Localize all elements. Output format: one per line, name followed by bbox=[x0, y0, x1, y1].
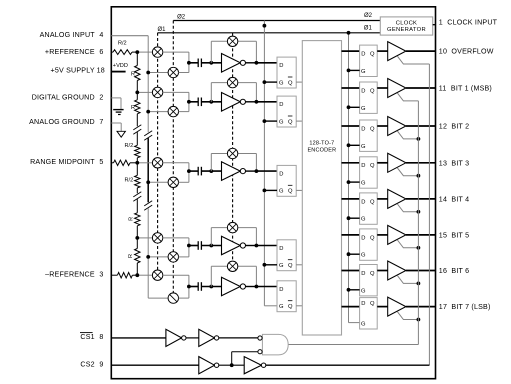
svg-text:D: D bbox=[361, 301, 365, 307]
svg-text:G: G bbox=[361, 144, 366, 150]
node D input row 1 bbox=[255, 61, 259, 65]
resistor R ladder 2 bbox=[131, 100, 140, 114]
wire U4 output to overflow enable rail bbox=[266, 364, 430, 366]
ladder break 1 bbox=[133, 125, 141, 130]
svg-text:Q: Q bbox=[370, 199, 375, 205]
latch bit 1 (second stage) bbox=[360, 82, 378, 113]
resistor (range midpoint) bbox=[114, 160, 131, 165]
node merge row 1 bbox=[187, 61, 191, 65]
svg-text:D: D bbox=[361, 163, 365, 169]
output enable rail (bits) bbox=[417, 101, 419, 345]
pin 9 label CS2 bbox=[80, 361, 103, 369]
NAND input bubble 2 bbox=[258, 350, 262, 354]
svg-text:Q: Q bbox=[288, 304, 293, 310]
svg-text:Q: Q bbox=[288, 263, 293, 269]
wire merge to capacitor row 2 bbox=[189, 101, 198, 103]
wire latch Q to buffer bit 5 bbox=[377, 234, 388, 236]
output buffer bit 4 bbox=[388, 189, 406, 208]
wire latch clock row 1 bbox=[264, 81, 277, 83]
wire U2 to NAND input 1 bbox=[219, 337, 258, 339]
svg-text:R/2: R/2 bbox=[124, 177, 133, 183]
wire buffer output overflow to pin bbox=[406, 50, 436, 52]
latch bit 5 (second stage) bbox=[360, 229, 378, 260]
analog switch row 5 input (Ø2) bbox=[168, 293, 178, 303]
svg-text:RANGE MIDPOINT: RANGE MIDPOINT bbox=[30, 158, 95, 166]
enable stub bit 2 bbox=[397, 131, 418, 139]
svg-text:Q: Q bbox=[370, 163, 375, 169]
wire rail to input switch row 3 bbox=[148, 181, 168, 183]
svg-text:1 CLOCK INPUT: 1 CLOCK INPUT bbox=[439, 19, 498, 27]
svg-text:Q: Q bbox=[288, 189, 293, 195]
wire buffer output bit 1 to pin bbox=[406, 87, 436, 89]
wire buffer output bit 2 to pin bbox=[406, 125, 436, 127]
svg-text:ANALOG GROUND: ANALOG GROUND bbox=[29, 118, 95, 126]
dashed control line Ø2 (input switches) bbox=[172, 21, 174, 304]
pin 2 label DIGITAL GROUND bbox=[32, 93, 104, 101]
svg-text:Ø1: Ø1 bbox=[364, 25, 373, 31]
enable stub overflow bbox=[397, 56, 429, 64]
svg-text:128-TO-7: 128-TO-7 bbox=[309, 140, 334, 146]
wire buffer output bit 6 to pin bbox=[406, 270, 436, 272]
svg-text:G: G bbox=[361, 321, 366, 327]
node capacitor output row 3 bbox=[209, 169, 213, 173]
node analog rail taps bbox=[146, 71, 150, 259]
svg-text:D: D bbox=[279, 172, 283, 178]
node enable bit 7 bbox=[417, 318, 421, 322]
wire encoder output bit 6 bbox=[342, 270, 360, 272]
svg-text:G: G bbox=[361, 217, 366, 223]
svg-text:14 BIT 4: 14 BIT 4 bbox=[439, 195, 469, 203]
svg-text:Q: Q bbox=[288, 119, 293, 125]
wire latch Q to buffer bit 4 bbox=[377, 198, 388, 200]
svg-text:–REFERENCE: –REFERENCE bbox=[45, 270, 95, 278]
wire input switch to merge node row 1 bbox=[179, 63, 189, 73]
node enable bit 5 bbox=[417, 246, 421, 250]
wire R/2 to ladder node bbox=[132, 51, 137, 53]
node enable bit 3 bbox=[417, 174, 421, 178]
wire latch clock bit 4 bbox=[349, 217, 360, 219]
svg-text:10 OVERFLOW: 10 OVERFLOW bbox=[439, 48, 494, 56]
128-to-7 encoder block bbox=[302, 41, 341, 335]
svg-text:2: 2 bbox=[99, 93, 103, 101]
svg-text:G: G bbox=[279, 263, 284, 269]
node D input row 2 bbox=[255, 100, 259, 104]
latch bit 2 (second stage) bbox=[360, 120, 378, 151]
comparator row 1: ladder tap wire bbox=[137, 51, 152, 53]
comparator row 5: ladder tap wire bbox=[137, 274, 152, 276]
resistor R ladder 5 bbox=[128, 213, 140, 226]
resistor R ladder 6 bbox=[128, 249, 140, 264]
wire latch Q to encoder row 3 bbox=[296, 189, 302, 191]
ladder wire R/2-node3 bbox=[136, 158, 138, 163]
wire ladder switch to merge node row 4 bbox=[163, 238, 189, 246]
analog switch row 3 feedback (Ø1) bbox=[227, 148, 237, 158]
svg-text:9: 9 bbox=[99, 361, 103, 369]
svg-text:+REFERENCE: +REFERENCE bbox=[45, 48, 95, 56]
svg-text:G: G bbox=[279, 80, 284, 86]
enable stub bit 3 bbox=[397, 168, 418, 176]
wire pin 1 clock input bbox=[433, 24, 436, 26]
ladder break 2 bbox=[133, 192, 141, 197]
svg-text:Q: Q bbox=[288, 80, 293, 86]
comparator row 3: ladder tap wire bbox=[137, 162, 152, 164]
feedback loop wires row 1 bbox=[211, 41, 256, 63]
wire latch Q to buffer bit 2 bbox=[377, 125, 388, 127]
ladder wire R6-node5 bbox=[136, 263, 138, 275]
svg-text:+VDD: +VDD bbox=[113, 63, 128, 69]
ladder wire R1-node2 bbox=[136, 81, 138, 100]
svg-text:R: R bbox=[131, 72, 135, 78]
svg-text:7: 7 bbox=[99, 118, 103, 126]
node enable bit 6 bbox=[417, 282, 421, 286]
wire rail to input switch row 2 bbox=[148, 111, 168, 113]
svg-text:CS2: CS2 bbox=[80, 361, 94, 369]
rail break 1 bbox=[144, 131, 152, 136]
wire latch Q to encoder row 5 bbox=[296, 305, 302, 307]
svg-text:Ø2: Ø2 bbox=[177, 15, 186, 21]
wire clock rail turn to latch 5 bbox=[264, 305, 277, 307]
wire encoder output bit 2 bbox=[342, 125, 360, 127]
analog switch row 4 input (Ø2) bbox=[168, 252, 178, 262]
svg-text:D: D bbox=[361, 235, 365, 241]
wire latch clock overflow bbox=[349, 69, 360, 71]
ladder wire node4-R6 bbox=[136, 238, 138, 249]
feedback loop wires row 2 bbox=[211, 83, 256, 102]
wire encoder output bit 4 bbox=[342, 198, 360, 200]
wire buffer output bit 5 to pin bbox=[406, 234, 436, 236]
wire ladder switch to merge node row 5 bbox=[163, 275, 189, 286]
wire pin 2 digital ground bbox=[111, 97, 121, 99]
feedback loop wires row 5 bbox=[211, 266, 256, 286]
wire pin 6 +reference bbox=[111, 51, 113, 53]
wire latch clock row 2 bbox=[264, 120, 277, 122]
wire latch clock bit 1 bbox=[349, 106, 360, 108]
wire ladder switch to merge node row 1 bbox=[163, 52, 189, 63]
feedback loop wires row 3 bbox=[211, 154, 256, 172]
enable stub bit 1 bbox=[397, 93, 418, 101]
wire latch clock bit 5 bbox=[349, 253, 360, 255]
digital ground symbol bbox=[113, 98, 123, 115]
enable stub bit 5 bbox=[397, 240, 418, 248]
latch L1 (first stage) bbox=[277, 57, 296, 88]
ladder wire R5-node4 bbox=[136, 226, 138, 238]
ladder wire break2-R5 bbox=[136, 199, 138, 213]
wire latch Q to encoder row 1 bbox=[296, 81, 302, 83]
node D input row 5 bbox=[255, 285, 259, 289]
dashed control line Ø1 (feedback switches) bbox=[232, 33, 234, 272]
wire ladder switch to merge node row 3 bbox=[163, 163, 189, 171]
svg-text:Q: Q bbox=[370, 52, 375, 58]
svg-text:R: R bbox=[128, 254, 134, 258]
analog switch row 5 feedback (Ø1) bbox=[227, 261, 237, 271]
latch bit 7 (second stage) bbox=[360, 298, 378, 329]
output buffer bit 5 bbox=[388, 225, 406, 244]
enable stub bit 4 bbox=[397, 204, 418, 212]
capacitor C5 bbox=[198, 282, 201, 291]
ladder wire break1-R/2 bbox=[136, 132, 138, 145]
latch bit 3 (second stage) bbox=[360, 157, 378, 188]
svg-text:R: R bbox=[131, 105, 135, 111]
analog switch row 2 feedback (Ø1) bbox=[227, 77, 237, 87]
output buffer bit 1 bbox=[388, 79, 406, 98]
ladder wire node3-R/2b bbox=[136, 163, 138, 176]
svg-text:G: G bbox=[361, 288, 366, 294]
resistor R/2 ladder 4 bbox=[124, 175, 140, 188]
node capacitor output row 1 bbox=[209, 61, 213, 65]
pin 3 label –REFERENCE bbox=[45, 270, 103, 278]
wire amplifier output row 2 bbox=[246, 101, 257, 103]
wire amplifier output row 5 bbox=[246, 286, 257, 288]
wire rail to input switch row 4 bbox=[148, 256, 168, 258]
node merge row 4 bbox=[187, 244, 191, 248]
node merge row 3 bbox=[187, 169, 191, 173]
inverter U3 (CS2) bbox=[199, 357, 219, 374]
node D input row 4 bbox=[255, 244, 259, 248]
wire capacitor to amplifier row 5 bbox=[201, 286, 221, 288]
device outline box bbox=[111, 7, 435, 379]
wire buffer output bit 4 to pin bbox=[406, 198, 436, 200]
node enable bit 4 bbox=[417, 210, 421, 214]
svg-text:3: 3 bbox=[99, 270, 103, 278]
wire input switch to merge node row 4 bbox=[179, 246, 189, 257]
svg-text:8: 8 bbox=[99, 333, 103, 341]
capacitor C2 bbox=[198, 98, 201, 107]
wire pin 18 +VDD stub bbox=[111, 63, 128, 71]
svg-text:Ø1: Ø1 bbox=[157, 27, 166, 33]
wire merge to capacitor row 1 bbox=[189, 62, 198, 64]
wire pin 3 -reference bbox=[111, 274, 117, 276]
svg-text:CS1: CS1 bbox=[80, 333, 94, 341]
resistor (-reference) bbox=[117, 273, 132, 278]
output buffer bit 7 bbox=[388, 297, 406, 316]
svg-text:R: R bbox=[128, 217, 134, 221]
wire D input row 3 bbox=[256, 170, 277, 172]
svg-text:D: D bbox=[279, 63, 283, 69]
wire amplifier output row 4 bbox=[246, 245, 257, 247]
svg-text:DIGITAL GROUND: DIGITAL GROUND bbox=[32, 93, 95, 101]
svg-text:Ø2: Ø2 bbox=[364, 13, 373, 19]
analog input rail segment 3 bbox=[147, 208, 149, 298]
svg-text:G: G bbox=[279, 119, 284, 125]
comparator amplifier A5 bbox=[222, 277, 246, 296]
svg-text:16 BIT 6: 16 BIT 6 bbox=[439, 267, 469, 275]
analog input rail segment 2 bbox=[147, 138, 149, 202]
wire rail to input switch row 1 bbox=[148, 72, 168, 74]
analog switch row 1 ladder (Ø1) bbox=[152, 47, 162, 57]
phase rail Ø1 bbox=[157, 25, 380, 33]
wire latch clock bit 6 bbox=[349, 289, 360, 291]
latch L5 (first stage) bbox=[277, 281, 296, 312]
analog switch row 1 feedback (Ø1) bbox=[227, 36, 237, 46]
svg-text:G: G bbox=[279, 189, 284, 195]
svg-text:D: D bbox=[361, 271, 365, 277]
pin 4 label ANALOG INPUT bbox=[40, 31, 104, 39]
svg-text:18: 18 bbox=[97, 67, 105, 75]
analog switch row 4 ladder (Ø1) bbox=[152, 233, 162, 243]
svg-text:Q: Q bbox=[370, 301, 375, 307]
capacitor C4 bbox=[198, 241, 201, 250]
latch L4 (first stage) bbox=[277, 240, 296, 271]
comparator amplifier A1 bbox=[222, 54, 246, 73]
svg-text:GENERATOR: GENERATOR bbox=[387, 27, 426, 33]
svg-text:Q: Q bbox=[370, 235, 375, 241]
wire input switch to merge node row 2 bbox=[179, 102, 189, 112]
analog switch row 1 input (Ø2) bbox=[168, 67, 178, 77]
ladder wire to break 2 bbox=[136, 188, 138, 193]
output buffer bit 3 bbox=[388, 153, 406, 172]
wire encoder output bit 1 bbox=[342, 87, 360, 89]
CS1 overline bbox=[80, 332, 93, 334]
node CS2 branch bbox=[230, 363, 234, 367]
wire CS2 branch to NAND input 2 bbox=[232, 352, 258, 366]
node ladder taps bbox=[135, 50, 139, 277]
ladder wire node1-R1 bbox=[136, 52, 138, 65]
wire resistor to ladder node bbox=[130, 162, 137, 164]
wire pin 8 CS1 bbox=[111, 337, 166, 339]
analog switch row 5 ladder (Ø1) bbox=[152, 270, 162, 280]
latch overflow (second stage) bbox=[360, 45, 378, 76]
wire amplifier output row 1 bbox=[246, 62, 257, 64]
resistor R/2 (+reference) bbox=[113, 41, 132, 55]
svg-text:4: 4 bbox=[99, 31, 103, 39]
svg-text:R/2: R/2 bbox=[124, 143, 133, 149]
output buffer overflow bbox=[388, 42, 406, 61]
wire capacitor to amplifier row 4 bbox=[201, 245, 221, 247]
wire U1 to U2 bbox=[186, 337, 199, 339]
analog switch row 4 feedback (Ø1) bbox=[227, 222, 237, 232]
inverter U2 (CS1) bbox=[199, 329, 219, 346]
wire buffer output bit 3 to pin bbox=[406, 162, 436, 164]
wire pin 7 analog ground bbox=[111, 122, 121, 124]
latch bit 6 (second stage) bbox=[360, 265, 378, 296]
feedback loop wires row 4 bbox=[211, 228, 256, 246]
comparator amplifier A3 bbox=[222, 162, 246, 181]
latch bit 4 (second stage) bbox=[360, 193, 378, 224]
svg-text:D: D bbox=[279, 246, 283, 252]
resistor R ladder 1 bbox=[131, 66, 140, 81]
node capacitor output row 5 bbox=[209, 285, 213, 289]
wire latch Q to encoder row 2 bbox=[296, 120, 302, 122]
analog switch row 3 ladder (Ø1) bbox=[152, 158, 162, 168]
pin 18 label +5V SUPPLY bbox=[51, 67, 105, 75]
wire latch Q to buffer bit 7 bbox=[377, 306, 388, 308]
latch clock rail (first stage) bbox=[263, 21, 265, 306]
svg-text:G: G bbox=[279, 304, 284, 310]
wire enable return to NAND output bbox=[288, 344, 418, 346]
node merge row 5 bbox=[187, 285, 191, 289]
svg-text:G: G bbox=[361, 181, 366, 187]
wire latch Q to encoder row 4 bbox=[296, 264, 302, 266]
svg-text:G: G bbox=[361, 253, 366, 259]
pin 8 label CS1 bbox=[80, 333, 103, 341]
wire capacitor to amplifier row 2 bbox=[201, 101, 221, 103]
wire encoder output bit 7 bbox=[342, 306, 360, 308]
wire ladder switch to merge node row 2 bbox=[163, 92, 189, 101]
svg-text:12 BIT 2: 12 BIT 2 bbox=[439, 123, 469, 131]
svg-text:D: D bbox=[361, 199, 365, 205]
wire D input row 4 bbox=[256, 245, 277, 247]
ladder wire to break 1 bbox=[136, 114, 138, 127]
wire latch clock row 3 bbox=[264, 189, 277, 191]
comparator amplifier A2 bbox=[222, 93, 246, 112]
wire latch Q to buffer bit 1 bbox=[377, 87, 388, 89]
pin 7 label ANALOG GROUND bbox=[29, 118, 103, 126]
svg-text:13 BIT 3: 13 BIT 3 bbox=[439, 159, 469, 167]
svg-text:Q: Q bbox=[370, 88, 375, 94]
analog switch row 2 ladder (Ø1) bbox=[152, 87, 162, 97]
node capacitor output row 4 bbox=[209, 244, 213, 248]
wire input switch to merge node row 5 bbox=[179, 287, 189, 299]
output buffer bit 6 bbox=[388, 261, 406, 280]
svg-text:+5V SUPPLY: +5V SUPPLY bbox=[51, 67, 95, 75]
svg-text:D: D bbox=[361, 88, 365, 94]
wire clock rail turn to bit7 latch bbox=[349, 322, 360, 324]
wire D input row 5 bbox=[256, 286, 277, 288]
svg-text:CLOCK: CLOCK bbox=[396, 21, 417, 27]
wire resistor to ladder bottom node bbox=[132, 274, 137, 276]
node D input row 3 bbox=[255, 169, 259, 173]
comparator row 4: ladder tap wire bbox=[137, 237, 152, 239]
rail break 2 bbox=[144, 201, 152, 206]
svg-text:5: 5 bbox=[99, 158, 103, 166]
wire latch Q to buffer bit 3 bbox=[377, 162, 388, 164]
wire pin 9 CS2 bbox=[111, 364, 199, 366]
node enable bit 2 bbox=[417, 137, 421, 141]
analog ground symbol bbox=[117, 123, 125, 137]
wire pin 4 analog input bbox=[111, 35, 148, 37]
svg-text:11 BIT 1 (MSB): 11 BIT 1 (MSB) bbox=[439, 85, 492, 93]
wire encoder output bit 5 bbox=[342, 234, 360, 236]
svg-text:ENCODER: ENCODER bbox=[307, 147, 336, 153]
analog switch row 2 input (Ø2) bbox=[168, 106, 178, 116]
NAND input bubble 1 bbox=[258, 336, 262, 340]
wire latch clock bit 2 bbox=[349, 144, 360, 146]
svg-text:G: G bbox=[361, 106, 366, 112]
analog input rail (vertical) segment 1 bbox=[147, 36, 149, 133]
output buffer bit 2 bbox=[388, 117, 406, 136]
svg-text:D: D bbox=[361, 126, 365, 132]
overflow enable rail bbox=[428, 64, 430, 365]
wire D input row 1 bbox=[256, 62, 277, 64]
wire input switch to merge node row 3 bbox=[179, 171, 189, 182]
svg-text:G: G bbox=[361, 69, 366, 75]
svg-text:D: D bbox=[279, 102, 283, 108]
svg-text:15 BIT 5: 15 BIT 5 bbox=[439, 231, 469, 239]
latch L3 (first stage) bbox=[277, 165, 296, 196]
svg-text:D: D bbox=[279, 287, 283, 293]
wire merge to capacitor row 4 bbox=[189, 245, 198, 247]
wire merge to capacitor row 5 bbox=[189, 286, 198, 288]
wire rail to input switch row 5 bbox=[148, 297, 168, 299]
svg-text:R/2: R/2 bbox=[118, 41, 127, 47]
inverter U1 (CS1) bbox=[166, 329, 186, 346]
enable stub bit 7 bbox=[397, 312, 418, 320]
NAND gate G1 bbox=[262, 334, 288, 355]
svg-text:D: D bbox=[361, 52, 365, 58]
wire latch Q to buffer overflow bbox=[377, 50, 388, 52]
analog switch row 3 input (Ø2) bbox=[168, 177, 178, 187]
dashed control line Ø1 (ladder switches) bbox=[157, 33, 159, 281]
wire latch clock row 4 bbox=[264, 264, 277, 266]
pin 6 label +REFERENCE bbox=[45, 48, 104, 56]
wire merge to capacitor row 3 bbox=[189, 170, 198, 172]
phase rail Ø2 bbox=[173, 13, 380, 21]
enable stub bit 6 bbox=[397, 276, 418, 284]
node capacitor output row 2 bbox=[209, 100, 213, 104]
svg-text:17 BIT 7 (LSB): 17 BIT 7 (LSB) bbox=[439, 303, 491, 311]
resistor R/2 ladder 3 bbox=[124, 143, 140, 158]
pin 5 label RANGE MIDPOINT bbox=[30, 158, 103, 166]
